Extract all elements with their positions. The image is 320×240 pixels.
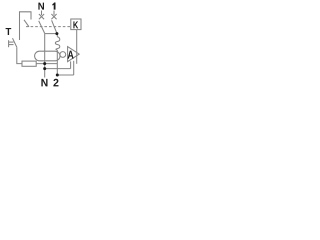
test button actuator [9, 40, 14, 47]
node test rail on N pole [43, 62, 46, 65]
node return rail on pole 2 [56, 74, 59, 77]
coil winding on right pole [55, 37, 59, 50]
label T (test button) [6, 28, 12, 35]
node supply rail on N pole [43, 67, 46, 70]
wire supply rail [45, 68, 71, 70]
label 2 (bottom terminal) [53, 79, 58, 87]
test contact blade [24, 20, 29, 27]
label K [73, 21, 78, 28]
label A [68, 51, 74, 59]
wire resistor to poles [36, 63, 57, 65]
terminal clamp 1 (stub + X) [51, 11, 56, 20]
label N (top terminal) [38, 3, 44, 10]
secondary winding loop (circle) [60, 52, 66, 58]
wire button to resistor [17, 48, 22, 64]
terminal clamp N (stub + X) [39, 11, 44, 20]
toroid core (oval) [35, 51, 60, 61]
wire right pole lower [56, 50, 58, 75]
amplifier U1 (triangle) [68, 47, 80, 62]
dashed trip linkage [26, 26, 71, 28]
contact blade pole N [39, 21, 45, 34]
trip relay K (box) [71, 19, 81, 30]
wire rail to amplifier output side [73, 61, 75, 75]
wire right pole upper [56, 34, 58, 37]
wire K to amplifier [76, 30, 78, 64]
contact blade pole 1 [52, 20, 57, 33]
wire test tap (top-left bracket) [20, 12, 32, 40]
resistor R (test) [22, 61, 36, 66]
junction dots [43, 32, 59, 76]
wire rail to amplifier [70, 61, 72, 68]
wire left pole down [44, 34, 46, 78]
label 1 (top terminal) [52, 3, 55, 10]
wire bridge below contacts [45, 33, 58, 35]
test button blade [13, 38, 18, 47]
node contact junction [55, 32, 58, 35]
wire return rail [57, 74, 73, 76]
label N (bottom terminal) [41, 79, 47, 87]
